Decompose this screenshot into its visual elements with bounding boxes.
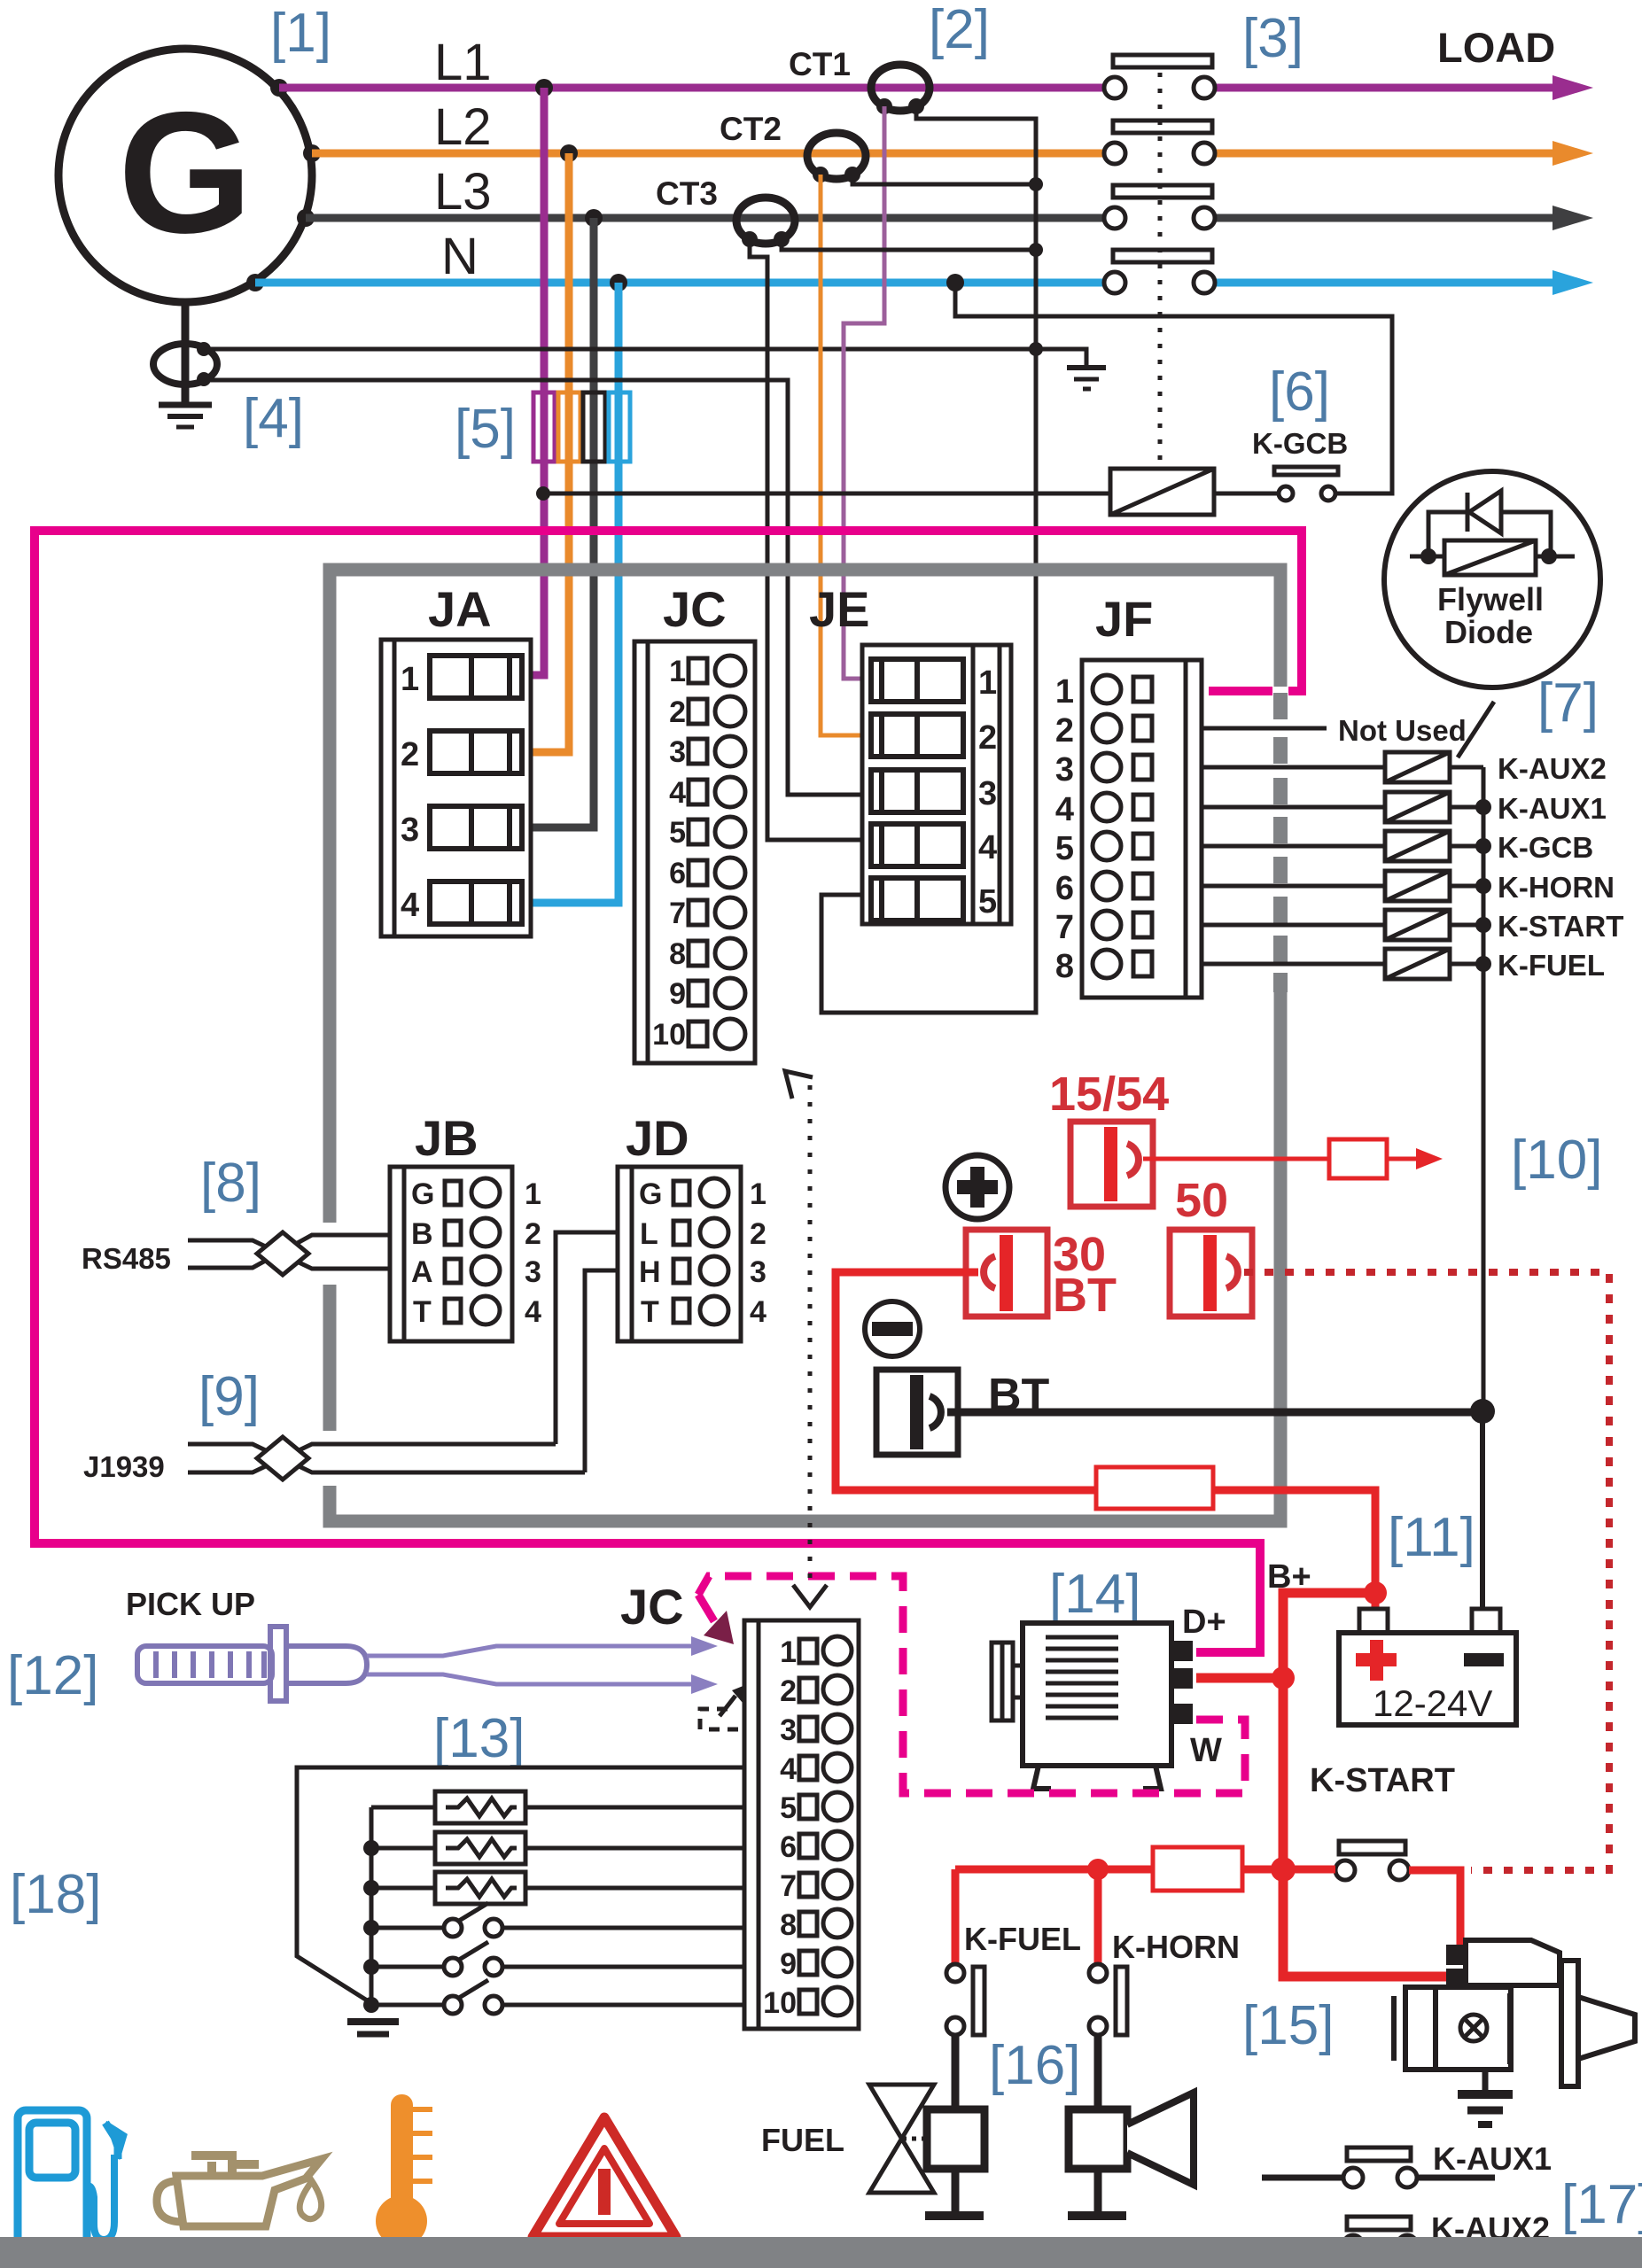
relay coil K-FUEL — [1385, 949, 1450, 979]
wire L3 load side — [1216, 214, 1556, 222]
chassis ground stub at contactor — [1036, 349, 1086, 365]
flywell pointer line — [1458, 702, 1494, 757]
svg-text:[1]: [1] — [270, 3, 331, 64]
flywell junction dots — [1420, 548, 1557, 564]
svg-text:[13]: [13] — [433, 1708, 525, 1769]
arrow 15/54 out — [1416, 1148, 1443, 1169]
svg-text:H: H — [639, 1255, 661, 1289]
CT4 terminal dots — [197, 342, 211, 386]
pickup wire to JC2 — [367, 1674, 693, 1684]
contact K-START — [1335, 1841, 1409, 1880]
contactor GCB pole N — [1104, 250, 1215, 293]
flywell wire — [1410, 555, 1575, 559]
junction dot rail/CT2 — [1029, 177, 1043, 191]
pickup sensor — [137, 1627, 367, 1701]
svg-text:CT1: CT1 — [789, 46, 851, 82]
svg-text:2: 2 — [780, 1674, 797, 1708]
svg-text:RS485: RS485 — [82, 1242, 171, 1275]
svg-text:2: 2 — [1055, 712, 1074, 750]
relay coil inside flywell detail — [1444, 540, 1536, 575]
ground symbol near contactor — [1067, 368, 1106, 389]
svg-text:8: 8 — [780, 1908, 797, 1942]
svg-text:Not Used: Not Used — [1338, 714, 1467, 747]
relay coil K-START — [1385, 910, 1450, 940]
svg-text:K-HORN: K-HORN — [1498, 871, 1615, 904]
white gap on gray left edge for RS485 pair — [315, 1223, 344, 1285]
svg-text:1: 1 — [1055, 673, 1074, 711]
svg-text:4: 4 — [525, 1295, 541, 1329]
relay coil K-AUX1 — [1385, 792, 1450, 822]
JC pin numbers — [652, 655, 686, 1052]
svg-text:D+: D+ — [1182, 1604, 1226, 1641]
JC pin contacts — [689, 656, 745, 1049]
svg-text:[18]: [18] — [10, 1864, 101, 1925]
svg-text:JE: JE — [809, 581, 870, 637]
warning triangle bar — [598, 2169, 611, 2215]
junction dot alternator B+ — [1272, 1666, 1295, 1689]
junction dot K-GCB coil feed on L1 drop — [536, 486, 550, 501]
CT3 terminal dots — [742, 231, 790, 247]
JF pin numbers — [1055, 673, 1074, 985]
JA terminals — [430, 656, 522, 924]
battery plus mark — [1356, 1640, 1397, 1681]
wire BT to battery minus — [947, 1409, 1482, 1417]
junction dot K-START — [1475, 917, 1491, 933]
Flywell diode detail circle — [1384, 471, 1600, 687]
dashed magenta arrowhead — [704, 1611, 734, 1644]
J1939 twist diamond — [257, 1437, 308, 1480]
contactor GCB pole L1 — [1104, 55, 1215, 98]
CT2 terminal dots — [813, 167, 860, 183]
svg-text:7: 7 — [669, 897, 686, 930]
svg-text:3: 3 — [669, 735, 686, 769]
svg-text:PICK UP: PICK UP — [126, 1586, 255, 1622]
wire B+ node to starter rail — [1283, 1593, 1375, 1869]
svg-text:3: 3 — [525, 1255, 541, 1289]
junction dot BT node — [1470, 1399, 1495, 1424]
wire JF7 to K-START coil — [1202, 923, 1385, 928]
alternator pulley — [992, 1643, 1023, 1720]
svg-text:4: 4 — [780, 1752, 797, 1786]
fuse F2 battery — [1096, 1467, 1213, 1509]
svg-text:10: 10 — [763, 1986, 797, 2020]
JE terminals — [871, 659, 963, 920]
svg-text:15/54: 15/54 — [1049, 1068, 1169, 1121]
battery 12-24V — [1339, 1609, 1516, 1725]
earth-fault CT [4] — [153, 344, 217, 384]
svg-text:K-FUEL: K-FUEL — [1498, 949, 1605, 982]
RS485 twisted pair — [188, 1235, 390, 1269]
svg-text:JA: JA — [428, 581, 492, 637]
starter motor M — [1394, 1940, 1635, 2086]
fuel valve link dotted — [902, 2137, 929, 2141]
wire K-HORN to rail — [1450, 884, 1483, 889]
svg-text:K-START: K-START — [1498, 910, 1623, 943]
wire JF2 Not Used — [1202, 726, 1327, 731]
svg-text:50: 50 — [1175, 1174, 1228, 1227]
svg-text:2: 2 — [978, 719, 997, 757]
svg-text:3: 3 — [978, 775, 997, 812]
horn — [1068, 2034, 1194, 2220]
JC bottom pin numbers — [763, 1635, 797, 2020]
svg-text:5: 5 — [1055, 830, 1074, 867]
CT3 secondary to JE4 — [750, 239, 862, 840]
svg-text:3: 3 — [750, 1255, 767, 1289]
wire K-HORN drop — [1094, 1869, 1102, 1964]
starter ground wire — [1482, 2070, 1489, 2093]
CT4 secondary wire b — [204, 380, 862, 795]
starter terminal 50 — [1446, 1945, 1467, 1965]
svg-text:L: L — [640, 1217, 658, 1251]
J1939 twisted pair — [188, 1444, 585, 1472]
junction dot rail/CT4 — [1029, 342, 1043, 356]
wire K-GCB coil feed — [543, 492, 1110, 496]
svg-text:3: 3 — [401, 812, 419, 849]
sender bus junction dots — [363, 1840, 379, 2013]
wire fuse to arrow — [1387, 1157, 1418, 1161]
svg-text:2: 2 — [401, 736, 419, 773]
svg-text:1: 1 — [669, 655, 686, 688]
svg-text:[8]: [8] — [200, 1153, 261, 1214]
svg-text:CT3: CT3 — [656, 175, 718, 212]
pickup wire to JC1 — [367, 1646, 693, 1656]
svg-text:1: 1 — [525, 1177, 541, 1211]
connector JC body — [634, 641, 755, 1063]
svg-text:LOAD: LOAD — [1437, 24, 1555, 71]
fuse link [5] L3 — [583, 392, 605, 462]
connector JF body — [1082, 660, 1202, 998]
switch sender S3 — [371, 1980, 744, 2014]
junction dot rail/CT3 — [1029, 243, 1043, 257]
svg-text:[7]: [7] — [1537, 672, 1599, 734]
svg-text:3: 3 — [1055, 751, 1074, 788]
white gap on gray left edge for J1939 pair — [315, 1431, 344, 1486]
svg-text:4: 4 — [669, 776, 686, 810]
resistive sender R2 — [371, 1832, 744, 1864]
contact K-HORN — [1089, 1964, 1127, 2035]
dashed magenta W wire — [698, 1576, 1245, 1793]
sender common wire to JC4 — [297, 1767, 744, 2003]
wire coil to contact — [1214, 492, 1280, 496]
svg-text:3: 3 — [780, 1713, 797, 1747]
generator ground symbol — [159, 405, 212, 427]
JB pin contacts — [445, 1178, 500, 1324]
pointer arrowhead to JC top — [785, 1071, 813, 1099]
wire J1939 to JD2 — [556, 1232, 618, 1444]
svg-text:6: 6 — [780, 1830, 797, 1864]
JC bottom pin contacts — [799, 1636, 852, 2016]
junction dot K-GCB — [1475, 838, 1491, 854]
svg-text:[5]: [5] — [455, 399, 516, 460]
junction dot B+ node — [1364, 1581, 1387, 1604]
svg-text:[2]: [2] — [929, 0, 990, 60]
generator earth wire — [182, 302, 190, 403]
svg-text:[9]: [9] — [198, 1366, 260, 1427]
wire K-START feed (thick red) — [955, 1866, 1335, 1874]
svg-text:JC: JC — [663, 581, 727, 637]
wire L3 — [306, 214, 1103, 222]
arrow L1 — [1553, 75, 1593, 100]
svg-text:K-START: K-START — [1310, 1762, 1455, 1799]
JA pin numbers — [401, 661, 419, 924]
gray box right edge dashed section — [1272, 687, 1288, 992]
battery plus indicator — [946, 1155, 1009, 1219]
ignition feed coil 15/54 — [1070, 1122, 1153, 1207]
junction dot K-FUEL — [1475, 956, 1491, 972]
svg-text:6: 6 — [1055, 870, 1074, 907]
wire starter rail to starter motor — [1283, 1869, 1453, 1977]
wire N load side — [1216, 279, 1556, 287]
relay common rail to battery minus — [1482, 767, 1486, 1410]
svg-text:7: 7 — [1055, 909, 1074, 946]
arrow L2 — [1553, 141, 1593, 166]
svg-text:[16]: [16] — [989, 2035, 1080, 2096]
svg-text:G: G — [411, 1177, 434, 1211]
svg-text:A: A — [411, 1255, 433, 1289]
wire JF4 to K-AUX1 coil — [1202, 805, 1385, 810]
svg-text:2: 2 — [669, 695, 686, 729]
svg-text:1: 1 — [978, 664, 997, 702]
jumper dashed bracket — [700, 1709, 744, 1729]
fuse link [5] N — [609, 392, 630, 462]
fuel solenoid — [925, 2034, 984, 2220]
svg-text:[11]: [11] — [1388, 1507, 1475, 1568]
controller outer net (magenta) from JF1 to D+ — [35, 531, 1302, 1652]
junction dot K-AUX1 — [1475, 799, 1491, 815]
svg-text:K-GCB: K-GCB — [1498, 831, 1593, 864]
svg-text:L1: L1 — [434, 34, 492, 91]
contactor linkage dotted line — [1158, 73, 1163, 465]
svg-text:9: 9 — [669, 977, 686, 1011]
junction dot L1/JA1 tap — [535, 79, 553, 97]
svg-text:B: B — [411, 1217, 433, 1251]
svg-text:4: 4 — [1055, 791, 1074, 828]
svg-text:5: 5 — [978, 883, 997, 920]
junction dot starter rail — [1271, 1857, 1296, 1882]
junction dot L2/JA2 tap — [560, 144, 578, 162]
contact K-GCB aux — [1274, 467, 1338, 501]
svg-text:K-FUEL: K-FUEL — [964, 1921, 1081, 1957]
controller box (gray) — [330, 570, 1280, 1521]
junction dot L3/JA3 tap — [585, 209, 603, 227]
RS485 twist diamond — [257, 1232, 308, 1275]
contactor GCB pole L2 — [1104, 120, 1215, 164]
fuse F3 starter — [1153, 1847, 1242, 1891]
svg-text:[17]: [17] — [1561, 2174, 1642, 2235]
wire K-START to rail — [1450, 923, 1483, 928]
contact K-AUX2 — [1343, 2217, 1417, 2255]
starter bolt symbol — [1460, 2015, 1487, 2041]
neutral sense wire to K-GCB contact — [955, 283, 1392, 493]
svg-text:B+: B+ — [1267, 1558, 1311, 1596]
wire JF3 to K-AUX2 coil — [1202, 765, 1385, 770]
svg-text:JC: JC — [620, 1579, 684, 1635]
battery feed coil 30 BT — [966, 1230, 1047, 1317]
connector JB body — [390, 1167, 512, 1341]
junction dot K-HORN feed — [1087, 1859, 1109, 1880]
JB pin letters — [411, 1177, 434, 1329]
wire L2 drop to JA2 — [531, 153, 569, 752]
svg-text:L3: L3 — [434, 163, 492, 221]
svg-text:1: 1 — [750, 1177, 767, 1211]
battery minus indicator — [865, 1301, 920, 1356]
alternator terminal D+ — [1171, 1641, 1193, 1661]
switch sender S2 — [371, 1942, 744, 1976]
switch sender S1 — [371, 1903, 744, 1937]
svg-text:G: G — [118, 76, 253, 269]
wire J1939 to JD3 — [585, 1270, 618, 1472]
svg-text:[4]: [4] — [243, 388, 304, 449]
wire K-GCB to rail — [1450, 844, 1483, 849]
JB pin numbers — [525, 1177, 541, 1329]
relay coil K-HORN — [1385, 871, 1450, 901]
alternator fins — [1046, 1637, 1118, 1718]
connector JD body — [618, 1167, 741, 1341]
generator terminal dots — [246, 79, 321, 291]
fuel pump icon — [18, 2110, 125, 2245]
svg-text:5: 5 — [780, 1791, 797, 1825]
contact K-AUX1 — [1262, 2148, 1495, 2187]
thermometer icon — [376, 2094, 432, 2247]
wire 30BT to B+ node (thick red) — [836, 1272, 1375, 1593]
dotted JC detail pointer line — [808, 1085, 813, 1588]
resistive sender R1 — [371, 1791, 744, 1823]
connector JE body — [862, 645, 1011, 924]
svg-text:8: 8 — [1055, 948, 1074, 985]
svg-text:T: T — [641, 1295, 659, 1329]
contact K-FUEL — [946, 1964, 984, 2035]
CT3 — [736, 198, 795, 244]
svg-text:10: 10 — [652, 1018, 686, 1052]
svg-text:K-AUX1: K-AUX1 — [1498, 792, 1607, 825]
svg-text:G: G — [639, 1177, 662, 1211]
CT2 — [807, 133, 866, 179]
flywell diode branch wires — [1428, 512, 1551, 556]
JE pin numbers — [978, 664, 997, 920]
alternator body — [1023, 1623, 1171, 1766]
svg-text:2: 2 — [750, 1217, 767, 1251]
JD pin contacts — [673, 1178, 728, 1324]
arrow L3 — [1553, 206, 1593, 230]
CT2 secondary to JE2 (orange) — [821, 175, 862, 735]
svg-text:FUEL: FUEL — [761, 2122, 844, 2158]
wire JF5 to K-GCB coil — [1202, 844, 1385, 849]
fuse link [5] L2 — [558, 392, 580, 462]
CT1 — [871, 65, 930, 111]
battery minus mark — [1464, 1653, 1504, 1666]
CT1 secondary to JE1 (purple) — [844, 106, 884, 679]
junction dot N sense tap — [946, 274, 964, 291]
contactor GCB pole L3 — [1104, 185, 1215, 229]
starter terminal 30 — [1446, 1969, 1467, 1989]
junction dot N/JA4 tap — [610, 274, 627, 291]
svg-text:12-24V: 12-24V — [1373, 1682, 1492, 1724]
dashed magenta arrow line — [698, 1595, 714, 1621]
svg-text:K-GCB: K-GCB — [1252, 427, 1348, 460]
junction dot K-HORN — [1475, 878, 1491, 894]
svg-text:8: 8 — [669, 937, 686, 971]
svg-text:JD: JD — [626, 1110, 689, 1166]
svg-text:4: 4 — [978, 829, 997, 866]
svg-text:1: 1 — [401, 661, 419, 698]
wire N — [255, 279, 1103, 287]
svg-text:[10]: [10] — [1511, 1130, 1602, 1191]
svg-text:CT2: CT2 — [720, 111, 782, 147]
wire BT node to battery minus post — [1480, 1411, 1485, 1612]
svg-text:[14]: [14] — [1049, 1564, 1140, 1625]
wire K-AUX2 to rail — [1450, 765, 1483, 770]
JD pin letters — [639, 1177, 662, 1329]
svg-text:[15]: [15] — [1242, 1995, 1334, 2056]
sender bus vertical — [370, 1807, 374, 2005]
svg-text:6: 6 — [669, 857, 686, 890]
pickup wire arrowhead 2 — [691, 1674, 718, 1694]
svg-text:4: 4 — [401, 887, 419, 924]
resistive sender R3 — [371, 1872, 744, 1904]
relay coil K-GCB out — [1385, 831, 1450, 861]
CT3 secondary to common rail — [782, 239, 1036, 250]
wire K-FUEL to rail — [1450, 962, 1483, 967]
alternator terminal W — [1171, 1704, 1193, 1724]
svg-text:N: N — [441, 228, 479, 285]
starter feed coil 50 — [1170, 1230, 1252, 1317]
relay coil K-GCB — [1110, 469, 1214, 515]
battery sense coil BT — [876, 1370, 958, 1455]
jumper arrow at JC3 — [720, 1696, 735, 1716]
relay coil K-AUX2 — [1385, 752, 1450, 782]
svg-text:J1939: J1939 — [83, 1450, 165, 1483]
CT1 secondary to common rail — [821, 106, 1036, 1013]
wire L3 drop to JA3 — [531, 218, 594, 827]
wire alternator B+ — [1196, 1674, 1283, 1683]
alternator terminal B+ — [1171, 1668, 1193, 1689]
svg-text:JB: JB — [415, 1110, 479, 1166]
dotted wire 50 to starter contact — [1244, 1272, 1609, 1870]
bottom gray bar — [0, 2237, 1642, 2268]
connector JC bottom body — [744, 1620, 859, 2029]
svg-text:K-HORN: K-HORN — [1112, 1929, 1240, 1965]
warning triangle icon — [533, 2117, 676, 2237]
svg-text:W: W — [1190, 1732, 1222, 1769]
starter ground symbol — [1458, 2094, 1513, 2124]
fuse F1 — [1329, 1139, 1387, 1178]
connector JA body — [381, 640, 531, 936]
svg-text:Diode: Diode — [1444, 614, 1533, 650]
wire 15/54 output — [1143, 1157, 1327, 1161]
svg-text:K-AUX1: K-AUX1 — [1433, 2140, 1552, 2177]
wire L2 — [312, 150, 1103, 158]
svg-text:L2: L2 — [434, 98, 492, 156]
alternator feet — [1033, 1766, 1161, 1789]
svg-text:4: 4 — [750, 1295, 767, 1329]
CT4 secondary wire a — [204, 347, 1036, 352]
CT1 terminal dots — [876, 98, 924, 114]
svg-text:9: 9 — [780, 1947, 797, 1981]
wire L1 load side — [1216, 84, 1556, 92]
svg-text:7: 7 — [780, 1869, 797, 1903]
svg-text:BT: BT — [1053, 1269, 1117, 1322]
wire JF6 to K-HORN coil — [1202, 884, 1385, 889]
JD pin numbers — [750, 1177, 767, 1329]
wire N drop to JA4 — [531, 283, 619, 903]
svg-text:T: T — [413, 1295, 432, 1329]
diode D1 — [1467, 491, 1501, 533]
sender ground symbol — [347, 2022, 399, 2034]
CT2 secondary to common rail — [852, 175, 1036, 184]
pickup wire arrowhead 1 — [691, 1636, 718, 1656]
wire K-AUX1 to rail — [1450, 805, 1483, 810]
pointer arrowhead to JC bottom — [793, 1585, 827, 1607]
